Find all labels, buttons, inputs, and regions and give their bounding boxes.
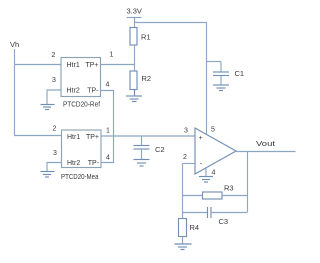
wire R4 to ground <box>182 237 184 244</box>
PTCD20-Ref box U1 <box>61 58 101 109</box>
resistor R1 <box>130 28 151 46</box>
svg-text:PTCD20-Mea: PTCD20-Mea <box>61 172 99 181</box>
svg-text:1: 1 <box>110 52 114 59</box>
svg-text:TP-: TP- <box>88 160 100 167</box>
svg-text:TP+: TP+ <box>85 62 98 69</box>
svg-text:R1: R1 <box>141 33 151 42</box>
svg-text:TP-: TP- <box>87 88 99 95</box>
resistor R4 <box>179 219 200 237</box>
svg-text:4: 4 <box>106 155 110 162</box>
svg-text:R4: R4 <box>190 223 200 232</box>
svg-text:PTCD20-Ref: PTCD20-Ref <box>63 100 101 109</box>
wire TP+ box2 to op-amp pin 3 <box>101 135 195 137</box>
svg-text:R3: R3 <box>224 184 234 193</box>
PTCD20-Mea box U2 <box>61 130 101 181</box>
wire R1 to R2 <box>134 45 136 71</box>
svg-text:2: 2 <box>53 126 57 133</box>
wire op-amp pin 2 input <box>183 163 196 165</box>
svg-text:C2: C2 <box>155 145 165 154</box>
ground below C2 <box>134 160 150 167</box>
svg-text:Vh: Vh <box>10 40 19 49</box>
svg-text:5: 5 <box>211 127 215 134</box>
svg-text:2: 2 <box>183 154 187 161</box>
wire minus node vertical <box>182 164 184 219</box>
svg-text:2: 2 <box>52 52 56 59</box>
resistor R2 <box>130 71 151 90</box>
ground at Htr2 box2 <box>41 172 55 178</box>
ground below R4 <box>175 244 192 250</box>
svg-text:3: 3 <box>53 150 57 157</box>
capacitor C3 <box>183 207 248 226</box>
wire Vh vertical with branches to Htr1 pins <box>15 49 62 136</box>
wire feedback from output node down <box>247 152 249 213</box>
wire 3.3V rail to op-amp pin 5 <box>135 23 207 135</box>
svg-text:-: - <box>200 161 203 168</box>
wire TP- box1 to TP- box2 <box>101 91 114 163</box>
svg-text:3: 3 <box>184 128 188 135</box>
wire Htr2 box1 to ground <box>47 90 61 105</box>
svg-text:1: 1 <box>106 128 110 135</box>
wire op-amp pin 4 to ground <box>205 167 207 177</box>
wire Htr2 box2 to ground <box>47 163 62 172</box>
op-amp U3 <box>195 128 236 174</box>
svg-text:3.3V: 3.3V <box>127 7 142 16</box>
ground below R2 <box>126 90 142 102</box>
svg-text:Htr2: Htr2 <box>67 160 80 167</box>
svg-text:C1: C1 <box>235 69 245 78</box>
svg-text:4: 4 <box>106 82 110 89</box>
svg-text:4: 4 <box>212 170 216 177</box>
svg-text:R2: R2 <box>142 74 152 83</box>
capacitor C2 <box>134 136 165 160</box>
ground below C1 <box>213 85 229 91</box>
capacitor C1 <box>207 62 245 86</box>
ground at Htr2 box1 <box>41 105 55 110</box>
svg-text:Htr1: Htr1 <box>67 62 80 69</box>
resistor R3 <box>183 184 248 200</box>
svg-text:Vout: Vout <box>256 139 276 148</box>
svg-text:C3: C3 <box>219 217 229 226</box>
svg-text:Htr2: Htr2 <box>67 88 80 95</box>
wire op-amp output Vout <box>236 139 296 152</box>
power 3.3V <box>127 7 142 28</box>
svg-text:Htr1: Htr1 <box>67 134 80 141</box>
svg-text:TP+: TP+ <box>86 134 99 141</box>
ground at op-amp pin 4 <box>199 177 213 183</box>
svg-text:+: + <box>199 135 203 142</box>
svg-text:3: 3 <box>52 77 56 84</box>
wire TP+ box1 to R1/R2 junction <box>101 64 135 66</box>
